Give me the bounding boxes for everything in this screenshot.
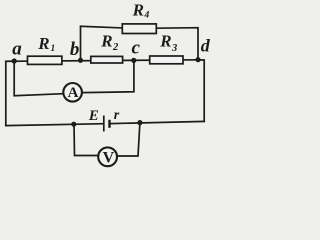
node a junction dot [12,58,17,63]
svg-text:r: r [114,108,120,123]
battery E long plate [103,116,105,132]
svg-text:A: A [68,85,79,101]
node c junction dot [131,58,136,63]
resistor R3 [150,56,183,64]
node b junction dot [78,58,83,63]
svg-text:b: b [70,39,80,60]
resistor R4 [122,24,156,34]
svg-text:c: c [132,37,141,58]
wire R4 branch right side down to node d [157,28,198,60]
wire bottom right segment (battery to bottom-right corner) [111,121,204,123]
wire bottom left segment (corner to battery) [6,124,104,126]
resistor R2 [91,56,123,63]
ammeter A1 circle [63,83,82,102]
node d junction dot [195,57,200,62]
svg-text:a: a [12,39,22,60]
svg-text:E: E [88,108,99,124]
wire R4 branch left riser from node b [81,26,122,60]
wire right outer loop up from corner to node d [198,60,204,122]
resistor R1 [28,56,62,64]
wire voltmeter loop right side [118,123,140,156]
svg-text:V: V [103,150,115,167]
voltmeter V1 circle [98,147,117,166]
wire left outer loop from node a down to bottom-left corner [6,61,14,126]
wire ammeter branch: ammeter right to below node c then up to c [83,60,134,92]
wire voltmeter loop left side [74,124,98,155]
junction dot battery right [137,120,142,125]
svg-text:d: d [201,36,211,56]
wire ammeter branch: node a down and right to ammeter [14,61,62,96]
junction dot battery left [71,122,76,127]
wire top main a-b-c-d [6,60,198,62]
battery E short thick plate [108,120,110,128]
